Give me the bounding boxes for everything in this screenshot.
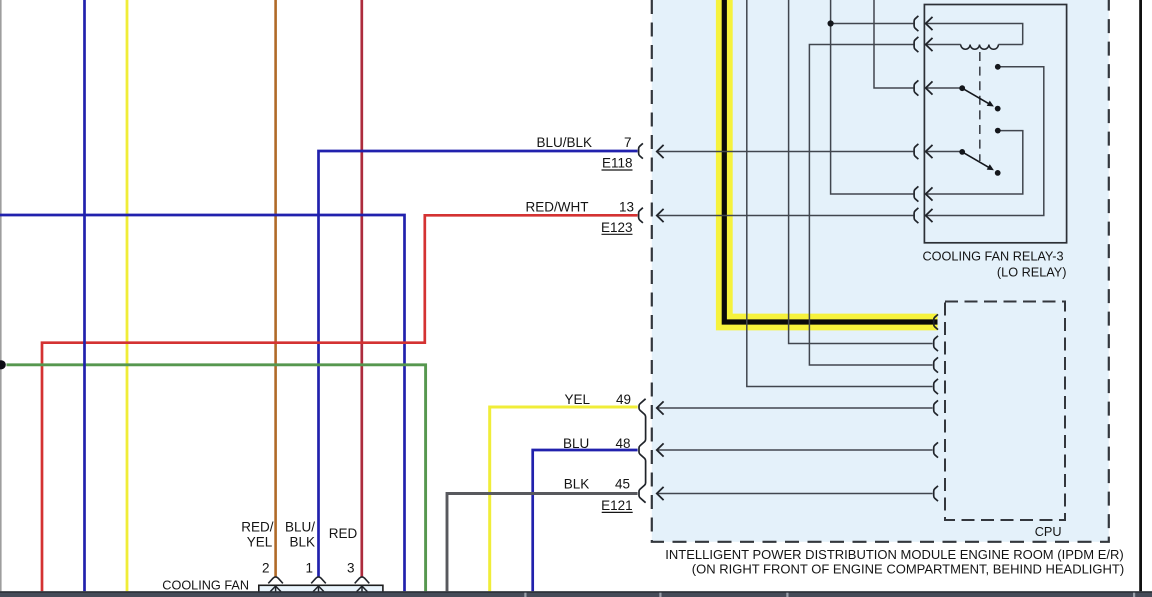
relay pin 3 arrow [926,81,933,94]
wire E118 row to relay row4 [657,151,913,153]
IPDM dashed border [652,0,1109,542]
svg-text:E121: E121 [601,498,633,513]
thin circuit wires inside IPDM [657,0,1044,494]
switch2 pivot dot [959,149,965,155]
svg-text:49: 49 [616,392,631,407]
wire vertical x=746.8 to CPU row 386 [747,0,933,387]
svg-text:BLK: BLK [564,477,590,492]
switch1 pivot dot [959,85,965,91]
bottom bar top edge [0,591,1152,592]
relay pin 1 arrow [926,17,933,30]
svg-text:RED: RED [329,526,358,541]
IPDM edge arrow pin 48 [657,443,664,456]
svg-text:BLU: BLU [563,436,589,451]
coil right link [998,44,1022,46]
fan pin 1 cap [311,577,326,584]
relay box COOLING FAN RELAY-3 [924,5,1066,243]
svg-text:2: 2 [262,561,270,576]
fan pin 1 arrow [313,586,324,593]
switch1 contact dot [995,106,1001,112]
svg-text:7: 7 [624,135,632,150]
relay pin 5 brace [914,186,918,201]
switch1 arm [962,88,989,104]
switch1 upper contact dot [995,64,1001,70]
switch2 upper contact dot [995,128,1001,134]
bottom bar separator 3 [786,593,788,597]
wire BLU horizontal y=215 from left edge, down at x=404.5 [0,215,405,591]
connector E121 long brace [639,399,646,503]
wire BLU vertical x=84 [83,0,86,591]
wire ORN vertical x=275.6 to fan pin 2 [274,0,277,577]
svg-text:E118: E118 [602,156,633,171]
wire pin49 row to CPU [657,407,933,409]
IPDM E/R light blue fill [652,0,1109,542]
CPU pin brace row 6 [934,442,938,457]
connector E118 brace [639,143,643,158]
highlighted thick wire (black core) [724,0,937,322]
relay pin 5 arrow [926,187,933,200]
CPU pin brace row 7 [934,486,938,501]
relay coil L1 [961,45,999,50]
svg-text:COOLING FAN RELAY-3: COOLING FAN RELAY-3 [922,250,1063,264]
svg-text:BLU/BLK: BLU/BLK [536,135,592,150]
wire BLK to pin 45 [447,494,638,592]
relay pin 1 brace [914,16,918,31]
svg-text:E123: E123 [601,220,633,235]
connector E123 brace [639,208,643,223]
relay pin 2 brace [914,37,918,52]
CPU pin brace row 2 [934,336,938,351]
svg-text:BLK: BLK [289,534,315,549]
node dot at left edge of green wire [0,360,6,369]
wire BLU/BLK from E118 pin 7 to fan pin 1 [319,151,638,577]
IPDM edge arrow pin 49 [657,401,664,414]
relay pin 2 arrow [926,38,933,51]
CPU pin brace row 4 [934,379,938,394]
CPU pin brace row 1 [934,314,938,329]
cooling fan connector box [259,585,383,596]
svg-text:(ON RIGHT FRONT OF ENGINE COMP: (ON RIGHT FRONT OF ENGINE COMPARTMENT, B… [692,561,1124,576]
relay pin 4 arrow [926,145,933,158]
svg-text:48: 48 [615,436,630,451]
svg-text:13: 13 [619,200,634,215]
CPU pin brace row 3 [934,357,938,372]
wire vertical x=809.4 from relay row2 to CPU row 365 [809,45,932,366]
wire relay row1 from junction [831,23,914,25]
wire vertical x=874 to relay row3 [874,0,913,88]
relay row1 internal to coil rail [926,24,1023,45]
wire dark RED vertical x=361.8 to fan pin 3 [360,0,363,577]
switch2 arm [962,152,989,168]
relay pin 6 brace [914,208,918,223]
bottom bar separator 1 [524,593,526,597]
wire RED/WHT from E123 pin 13 down-left to bottom [42,215,638,591]
wire vertical x=830.6 to relay row5 [831,0,914,194]
relay row3 internal to switch1 pivot [926,87,960,89]
IPDM edge arrow pin 13 [657,209,664,222]
svg-text:BLU/: BLU/ [285,519,315,534]
svg-text:3: 3 [347,561,355,576]
wire pin45 row to CPU [657,493,933,495]
wire GRN horizontal y=365 [7,365,426,592]
wire YEL vertical x=127 [126,0,129,591]
relay pin 6 arrow [926,209,933,222]
svg-text:YEL: YEL [564,392,590,407]
svg-text:COOLING FAN: COOLING FAN [162,578,249,592]
svg-text:INTELLIGENT POWER DISTRIBUTION: INTELLIGENT POWER DISTRIBUTION MODULE EN… [665,547,1123,562]
bottom bar separator 2 [659,593,661,597]
svg-text:YEL: YEL [247,534,273,549]
fan pin 2 arrow [270,586,281,593]
svg-text:(LO RELAY): (LO RELAY) [997,265,1067,279]
switch2 contact dot [995,170,1001,176]
wire pin48 row to CPU [657,449,933,451]
bottom bar separator 4 [1133,593,1135,597]
wire BLU to pin 48 [533,450,638,591]
left window edge [0,0,2,591]
IPDM edge arrow pin 7 [657,145,664,158]
right border line of adjacent panel [1139,0,1142,591]
svg-text:1: 1 [305,561,313,576]
wire vertical x=788.6 to CPU row 343 [789,0,933,344]
relay row4 internal to switch2 pivot [926,151,960,153]
fan pin 3 arrow [357,586,368,593]
fan pin 2 cap [268,577,283,584]
relay row2 internal to coil [926,44,961,46]
svg-text:CPU: CPU [1035,525,1062,539]
fan pin 3 cap [355,577,370,584]
CPU pin brace row 5 [934,400,938,415]
relay pin 3 brace [914,80,918,95]
bottom window bar [0,591,1152,597]
relay pin 4 brace [914,144,918,159]
relay row5 internal to switch2 upper contact [926,131,1023,194]
highlighted thick wire (yellow halo) [724,0,937,322]
IPDM edge arrow pin 45 [657,487,664,500]
CPU box dashed [945,302,1065,521]
wire YEL to pin 49 [490,407,638,591]
relay actuation dashed link [979,52,981,161]
relay row6 internal to switch1 upper contact [926,67,1044,216]
svg-text:RED/: RED/ [241,519,274,534]
svg-text:RED/WHT: RED/WHT [526,200,589,215]
junction dot relay feed [828,20,834,26]
wire E123 row to relay row6 [657,215,913,217]
svg-text:45: 45 [615,477,630,492]
